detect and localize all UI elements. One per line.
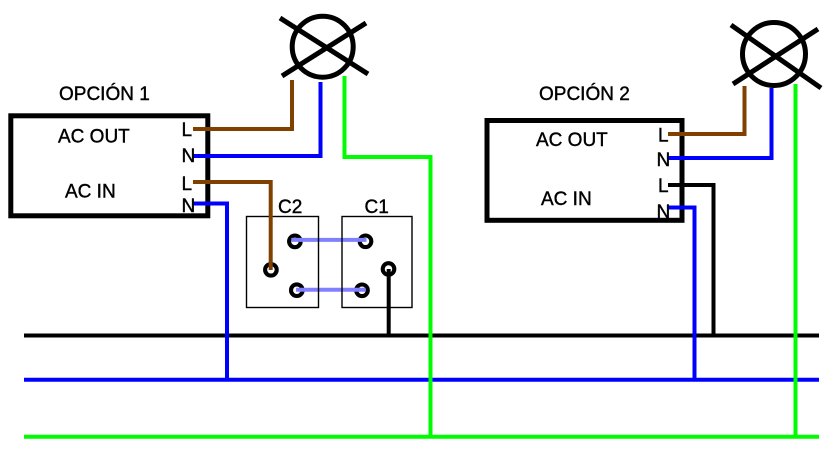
svg-text:L: L	[182, 174, 193, 195]
svg-text:C2: C2	[278, 197, 302, 218]
svg-text:L: L	[182, 120, 193, 141]
svg-text:AC OUT: AC OUT	[536, 130, 608, 151]
svg-text:N: N	[657, 202, 671, 223]
svg-text:OPCIÓN 1: OPCIÓN 1	[59, 83, 150, 105]
svg-text:AC OUT: AC OUT	[58, 126, 130, 147]
svg-text:L: L	[658, 125, 669, 146]
svg-text:N: N	[182, 196, 196, 217]
svg-text:N: N	[657, 150, 671, 171]
svg-text:OPCIÓN 2: OPCIÓN 2	[539, 83, 630, 105]
svg-text:L: L	[658, 176, 669, 197]
svg-text:AC IN: AC IN	[65, 181, 116, 202]
svg-text:AC IN: AC IN	[541, 189, 592, 210]
svg-text:C1: C1	[365, 197, 389, 218]
svg-text:N: N	[182, 146, 196, 167]
